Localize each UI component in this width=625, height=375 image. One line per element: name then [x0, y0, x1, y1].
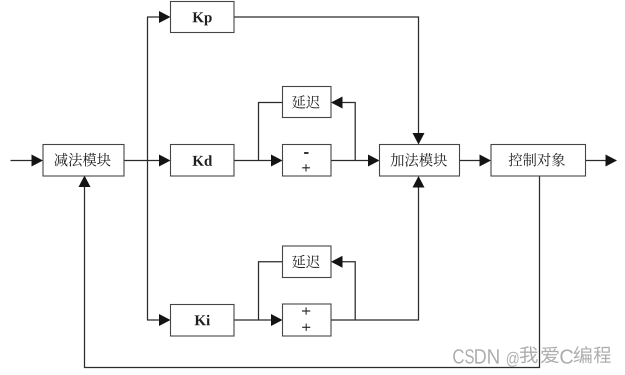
arrowhead: into Kp — [159, 11, 171, 23]
arrowhead: into sum2 — [271, 314, 283, 326]
arrowhead: into adder top — [413, 133, 425, 145]
wire: tap up to delay1 — [343, 103, 356, 161]
block: adder 加法模块 — [380, 145, 460, 177]
block: Kp — [171, 2, 235, 33]
block: sum1 -/+ — [283, 145, 332, 177]
block: sum2 +/+ — [283, 304, 332, 336]
sum1 minus sign — [304, 152, 308, 154]
sum2 lower plus sign — [302, 324, 310, 331]
arrowhead: into adder bottom — [413, 176, 425, 188]
wire: sum2 output to adder bottom — [331, 187, 419, 321]
wire: plant output — [586, 160, 607, 162]
block: delay1 延迟 — [283, 87, 332, 118]
arrowhead: into Kd — [159, 155, 171, 167]
arrowhead: into delay2 — [331, 256, 343, 268]
block: delay2 延迟 — [283, 246, 332, 278]
arrowhead: into delay1 — [331, 97, 343, 109]
arrowhead: output — [606, 155, 618, 167]
wire: branch vertical — [147, 17, 149, 320]
wire: feedback loop — [85, 176, 540, 368]
block: Kd — [171, 145, 235, 177]
wire: sum1 output to adder — [331, 160, 369, 162]
wire: subtract output to Kd — [124, 160, 160, 162]
wire: Ki output to sum2 — [234, 319, 272, 321]
wire: Kp output to adder top — [234, 17, 419, 134]
arrowhead: input — [32, 155, 44, 167]
block: Ki — [171, 305, 235, 337]
wire: adder output to plant — [460, 160, 481, 162]
arrowhead: into plant — [480, 155, 492, 167]
block: subtract 减法模块 — [43, 145, 124, 177]
wire: delay2 return to sum2 input — [259, 262, 283, 320]
wire: branch to Kp — [147, 16, 160, 18]
wire: delay1 return to sum1 input — [259, 103, 283, 161]
wire: branch to Ki — [147, 319, 160, 321]
sum2 upper plus sign — [302, 307, 310, 314]
arrowhead: feedback into subtract bottom — [79, 176, 91, 188]
block: plant 控制对象 — [491, 145, 586, 177]
wire: Kd output to sum1 — [234, 160, 272, 162]
sum1 plus sign — [302, 164, 310, 171]
wire: input into subtract block — [11, 160, 33, 162]
wire: tap up to delay2 — [343, 262, 356, 320]
arrowhead: into Ki — [159, 314, 171, 326]
watermark CSDN @我爱C编程 — [453, 346, 611, 367]
arrowhead: into sum1 — [271, 155, 283, 167]
arrowhead: into adder left — [368, 155, 380, 167]
